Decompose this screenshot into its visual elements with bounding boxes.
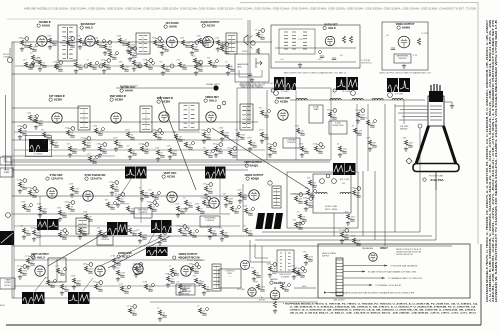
wire stub: [294, 272, 299, 274]
tube V3 1st audio 6AV6 label: [164, 22, 179, 29]
tube top cap wire: [274, 287, 276, 290]
wire stub: [178, 210, 183, 212]
resistor R71: [22, 228, 25, 233]
tube V15 vert osc label: [162, 172, 177, 179]
wire stub: [204, 288, 209, 290]
resistor R25: [66, 130, 69, 135]
diode X83: [127, 285, 131, 289]
headphone jack symbol: [256, 58, 262, 68]
resistor R27: [94, 128, 97, 133]
svg-text:5%: 5%: [365, 118, 368, 120]
svg-text:120K: 120K: [260, 287, 265, 289]
capacitor C66: [298, 202, 302, 204]
test point TP142: [171, 273, 175, 277]
ground: [102, 69, 106, 73]
resistor R94: [158, 310, 161, 315]
capacitor C36: [224, 136, 228, 138]
diode X2: [35, 43, 39, 47]
test point TP37: [233, 147, 237, 151]
ground: [110, 191, 114, 195]
resistor R57: [110, 184, 113, 189]
capacitor C95: [202, 314, 206, 316]
wire stub: [354, 187, 357, 190]
resistor R37: [228, 150, 231, 155]
capacitor C90: [272, 272, 276, 274]
diode X121: [35, 189, 39, 193]
wire stub: [246, 232, 251, 234]
wire stub: [105, 41, 108, 44]
resistor R9: [126, 42, 129, 47]
capacitor C79: [60, 274, 64, 276]
capacitor C98: [58, 70, 62, 72]
svg-text:5%: 5%: [340, 55, 343, 57]
svg-text:6.8K: 6.8K: [202, 41, 207, 43]
svg-text:220K: 220K: [360, 115, 365, 117]
capacitor C72: [62, 238, 66, 240]
resistor R58: [126, 206, 129, 211]
resistor R104: [144, 62, 147, 67]
wire stub: [218, 44, 223, 46]
wire stub: [74, 282, 79, 284]
ground: [300, 153, 304, 157]
svg-text:3.3M: 3.3M: [228, 199, 233, 201]
capacitor C122: [62, 216, 66, 218]
wire stub: [180, 225, 183, 228]
capacitor C15: [220, 46, 224, 48]
resistor R130: [32, 230, 35, 235]
wire stub: [186, 146, 191, 148]
wire stub: [330, 116, 335, 118]
ground: [298, 63, 302, 67]
resistor R144: [252, 270, 255, 275]
resistor R53: [38, 206, 41, 211]
test point circle 3: [274, 91, 279, 96]
capacitor C123: [88, 220, 92, 222]
wire stub: [20, 265, 23, 268]
capacitor C61: [188, 206, 192, 208]
CRT grid lines inside neck: [430, 106, 442, 120]
wire stub: [146, 66, 151, 68]
svg-text:SEE NOTE: SEE NOTE: [182, 293, 190, 295]
waveform photo W2: [286, 77, 297, 90]
wire stub: [80, 232, 85, 234]
ground: [304, 207, 308, 211]
svg-text:12AU7A: 12AU7A: [90, 177, 103, 181]
svg-text:220K: 220K: [73, 60, 78, 62]
tube V2 sound det 6AL5: [85, 36, 95, 46]
resistor R110: [34, 118, 37, 123]
test point TP133: [183, 225, 187, 229]
right margin rotated model list text col 1: [485, 19, 489, 302]
resistor R86: [178, 284, 181, 289]
svg-text:VERT = 38MH: VERT = 38MH: [325, 209, 338, 211]
wire stub: [34, 227, 37, 230]
ground: [161, 71, 165, 75]
resistor R201: [256, 48, 259, 54]
capacitor C57: [114, 190, 118, 192]
wire stub: [146, 59, 149, 62]
tube V21 horiz output: [181, 266, 191, 276]
test point TP57: [115, 181, 119, 185]
capacitor C149: [298, 228, 302, 230]
wire stub: [68, 134, 73, 136]
svg-text:2.2M: 2.2M: [194, 269, 199, 271]
ground: [18, 135, 22, 139]
node signal input dot: [213, 85, 218, 90]
capacitor C3: [52, 44, 56, 46]
transformer T3 audio output: [226, 33, 237, 54]
ground: [74, 69, 78, 73]
resistor R21: [256, 32, 259, 37]
video amp enclosure box: [237, 88, 331, 160]
capacitor C109: [230, 70, 234, 72]
resistor R67: [298, 214, 301, 219]
capacitor C28: [102, 152, 106, 154]
diode X31: [160, 131, 164, 135]
capacitor C131: [102, 236, 106, 238]
svg-text:2.2M: 2.2M: [215, 38, 220, 40]
resistor R47: [366, 120, 369, 125]
resistor R100: [88, 62, 91, 67]
test point TP46: [361, 109, 365, 113]
ground: [298, 221, 302, 225]
terminal strip kine socket: [336, 258, 343, 296]
svg-text:A5WL: A5WL: [0, 304, 5, 307]
wire stub: [192, 270, 197, 272]
diode X23: [35, 114, 39, 118]
wire stub: [368, 124, 373, 126]
capacitor C59: [144, 196, 148, 198]
ground: [226, 71, 230, 75]
svg-text:3.3M: 3.3M: [124, 289, 129, 291]
svg-text:120K: 120K: [71, 276, 76, 278]
wire stub: [20, 132, 25, 134]
tube V21b rectifier: [240, 260, 249, 269]
svg-text:5%: 5%: [65, 38, 68, 40]
svg-text:1W: 1W: [98, 287, 101, 289]
wire stub: [254, 274, 259, 276]
bus riser x395: [394, 104, 396, 232]
long B+ bus line 3: [255, 239, 436, 241]
resistor R23: [28, 115, 31, 120]
svg-text:120K: 120K: [232, 153, 237, 155]
bus riser x385: [384, 104, 386, 246]
ground: [268, 273, 272, 277]
waveform photo W8: [37, 219, 48, 230]
wire stub: [130, 152, 135, 154]
waveform photo W25: [157, 247, 168, 256]
CRT base cap black: [429, 91, 443, 102]
CRT funnel left leg: [416, 126, 429, 164]
wire stub: [190, 234, 195, 236]
capacitor C93: [132, 314, 136, 316]
diode X27: [101, 127, 105, 131]
capacitor C68: [310, 196, 314, 198]
riser x14: [13, 42, 15, 298]
diode X91: [287, 283, 291, 287]
test point TP124: [121, 193, 125, 197]
resistor R72: [58, 232, 61, 237]
flyback transformer T9: [272, 186, 281, 208]
transformer winding b: [303, 31, 307, 33]
capacitor C8: [122, 44, 126, 46]
capacitor C31: [157, 138, 161, 140]
capacitor C19: [132, 56, 136, 58]
test point TP63: [209, 183, 213, 187]
test point row circle 3: [84, 64, 88, 68]
wire stub: [24, 232, 29, 234]
wire stub: [86, 263, 89, 266]
wire video IF main bus: [12, 121, 258, 123]
resistor R139: [94, 284, 97, 289]
wire riser x357: [356, 104, 358, 171]
capacitor C120: [252, 146, 256, 148]
waveform photo W3: [336, 77, 347, 90]
svg-text:1.5M: 1.5M: [74, 189, 79, 191]
ground: [402, 64, 406, 68]
ground: [38, 67, 42, 71]
wire stub: [342, 229, 345, 232]
wire stub: [316, 150, 321, 152]
ground: [252, 277, 256, 281]
ground: [404, 147, 408, 151]
svg-text:220K: 220K: [26, 207, 31, 209]
diode X141: [151, 283, 155, 287]
capacitor C113: [92, 162, 96, 164]
wire stub: [136, 270, 141, 272]
ground: [238, 199, 242, 203]
capacitor C42: [304, 152, 308, 154]
ground: [70, 193, 74, 197]
capacitor C77: [212, 234, 216, 236]
diamond focus symbol: [406, 158, 412, 164]
diode X108: [215, 59, 219, 63]
svg-text:6.8K: 6.8K: [114, 187, 119, 189]
wire CRT face bottom drop: [435, 172, 437, 191]
ground: [114, 147, 118, 151]
diode X10: [160, 39, 164, 43]
capacitor C20: [197, 64, 201, 66]
caution text box: [176, 284, 195, 295]
svg-text:6.8K: 6.8K: [201, 198, 206, 200]
capacitor C49: [332, 118, 336, 120]
wire stub: [58, 272, 63, 274]
test point TP98: [59, 61, 63, 65]
riser x141: [140, 179, 142, 223]
capacitor C111: [54, 146, 58, 148]
diode X64: [237, 205, 241, 209]
diode X95: [205, 307, 209, 311]
ground: [138, 239, 142, 243]
capacitor C27: [98, 134, 102, 136]
tube V18 vert output label: [31, 253, 49, 260]
tube V10 video det: [206, 112, 216, 122]
wire stub: [192, 263, 195, 266]
capacitor C108: [212, 66, 216, 68]
svg-text:1.5M: 1.5M: [180, 38, 185, 40]
diode X113: [95, 155, 99, 159]
tube V7 1st video IF 6CB6: [52, 113, 62, 123]
arrowhead callout 4: [369, 284, 372, 286]
wire video det to CRT video line: [290, 99, 425, 101]
wire stub: [152, 196, 157, 198]
top frame line right half: [240, 2, 478, 4]
wire stub: [122, 68, 127, 70]
svg-text:TUNER: TUNER: [4, 172, 11, 174]
svg-text:.0047: .0047: [113, 138, 119, 140]
resistor R80: [60, 284, 63, 289]
ground: [216, 47, 220, 51]
wire bottom row bus y260: [14, 259, 205, 261]
svg-text:6CB6: 6CB6: [115, 98, 123, 102]
svg-text:2.2M: 2.2M: [82, 41, 87, 43]
svg-text:55 V VERT: 55 V VERT: [395, 94, 405, 96]
svg-text:2ND ANODE: 2ND ANODE: [362, 247, 374, 250]
wire to ratio detector box: [250, 41, 272, 43]
wire stub: [136, 263, 139, 266]
wire stub: [204, 136, 209, 138]
capacitor C124: [120, 202, 124, 204]
wire stub: [122, 290, 127, 292]
resistor R88: [202, 284, 205, 289]
capacitor C204: [320, 56, 324, 58]
svg-text:5%: 5%: [159, 42, 162, 44]
svg-text:6AV6: 6AV6: [169, 25, 177, 29]
wire stub: [50, 42, 55, 44]
svg-text:.0047: .0047: [28, 65, 34, 67]
svg-text:6.8K: 6.8K: [32, 47, 37, 49]
tube V10 video det 6AL5 label: [204, 96, 219, 103]
capacitor C121: [32, 196, 36, 198]
resistor R41: [296, 128, 299, 133]
wire video IF grid bus: [12, 107, 80, 109]
wire stub: [130, 312, 135, 314]
power transformer T10: [212, 264, 221, 291]
wire stub: [118, 193, 121, 196]
resistor R148: [304, 200, 307, 205]
svg-text:1.5M: 1.5M: [94, 38, 99, 40]
riser x220: [219, 170, 221, 214]
resistor R36: [220, 130, 223, 135]
waveform photo W23: [79, 292, 90, 304]
yoke coil L6: [316, 192, 327, 194]
capacitor C71: [26, 234, 30, 236]
svg-text:6.8K: 6.8K: [182, 231, 187, 233]
wire stub: [210, 232, 215, 234]
capacitor C133: [182, 234, 186, 236]
resistor R68: [306, 190, 309, 195]
capacitor C55: [74, 192, 78, 194]
test point circle 5: [388, 93, 393, 98]
svg-text:* HOFFMAN MODELS 7M170, U, 7M1: * HOFFMAN MODELS 7M170, U, 7M171B, P2, 7…: [283, 303, 479, 306]
ground near neck: [450, 104, 454, 108]
svg-text:HEADPHONE: HEADPHONE: [237, 63, 249, 66]
capacitor C151: [356, 196, 360, 198]
ground: [22, 235, 26, 239]
test point TP93: [133, 305, 137, 309]
diode X43: [321, 145, 325, 149]
waveform photo W21: [34, 292, 45, 304]
svg-text:3 V VIDEO: 3 V VIDEO: [34, 154, 43, 156]
capacitor C4: [70, 46, 74, 48]
test point TP31: [158, 129, 162, 133]
left edge top tiny box: [0, 157, 11, 165]
resistor R20: [193, 58, 196, 63]
resistor R112: [82, 140, 85, 145]
ground: [112, 265, 116, 269]
wire stub: [100, 234, 105, 236]
wire stub: [204, 197, 207, 200]
svg-text:6CB6: 6CB6: [162, 100, 170, 104]
wire stub: [118, 200, 123, 202]
resistor R38: [260, 132, 263, 137]
svg-text:TO CRT: TO CRT: [421, 33, 429, 35]
resistor R66: [294, 196, 297, 201]
svg-text:ANT C-CAP: ANT C-CAP: [340, 178, 350, 181]
wire stub: [170, 152, 175, 154]
test point TP34: [207, 129, 211, 133]
ground: [168, 155, 172, 159]
ground: [214, 153, 218, 157]
wire stub: [84, 144, 89, 146]
tube V1 sound IF 6AU6: [37, 36, 47, 46]
svg-text:1W: 1W: [105, 200, 108, 202]
svg-text:.0047: .0047: [144, 149, 150, 151]
svg-text:2.2M: 2.2M: [120, 273, 125, 275]
resistor R97: [38, 60, 41, 65]
ground: [292, 275, 296, 279]
ground: [248, 147, 252, 151]
leader circle photo pair 2: [333, 89, 336, 92]
diode X145: [303, 269, 307, 273]
capacitor C100: [92, 68, 96, 70]
test point TP151: [357, 187, 361, 191]
capacitor C54: [70, 210, 74, 212]
wire stub: [262, 114, 267, 116]
right frame upper segment: [477, 3, 479, 245]
wire stub: [226, 200, 231, 202]
test point row circle 6: [170, 64, 174, 68]
capacitor C135: [248, 234, 252, 236]
tube V3 1st audio 6AV6: [166, 36, 177, 47]
tube V7 1st video IF 6CB6 label: [49, 95, 66, 102]
wire stub: [228, 68, 233, 70]
CRT funnel right leg: [444, 126, 457, 164]
wire stub: [72, 190, 77, 192]
capacitor C129: [248, 214, 252, 216]
wire stub: [150, 208, 155, 210]
resistor R93: [128, 308, 131, 313]
capacitor C60: [152, 210, 156, 212]
resistor R8: [118, 38, 121, 43]
wire stub: [206, 154, 211, 156]
resistor R131: [98, 230, 101, 235]
wire AGC upper bus y156: [2, 155, 115, 157]
ground: [82, 147, 86, 151]
CRT faceplate: [413, 164, 459, 172]
capacitor C73: [82, 234, 86, 236]
tube V15 vert osc: [167, 192, 177, 202]
capacitor C92: [296, 274, 300, 276]
svg-text:.0047: .0047: [344, 235, 350, 237]
wire stub: [28, 255, 31, 258]
svg-text:6DQ6: 6DQ6: [251, 177, 259, 181]
ground: [128, 155, 132, 159]
tube V5 ratio det 6AL5 label: [323, 24, 338, 31]
waveform photo W13: [136, 167, 147, 179]
diode X52: [29, 203, 33, 207]
resistor R34: [202, 132, 205, 137]
